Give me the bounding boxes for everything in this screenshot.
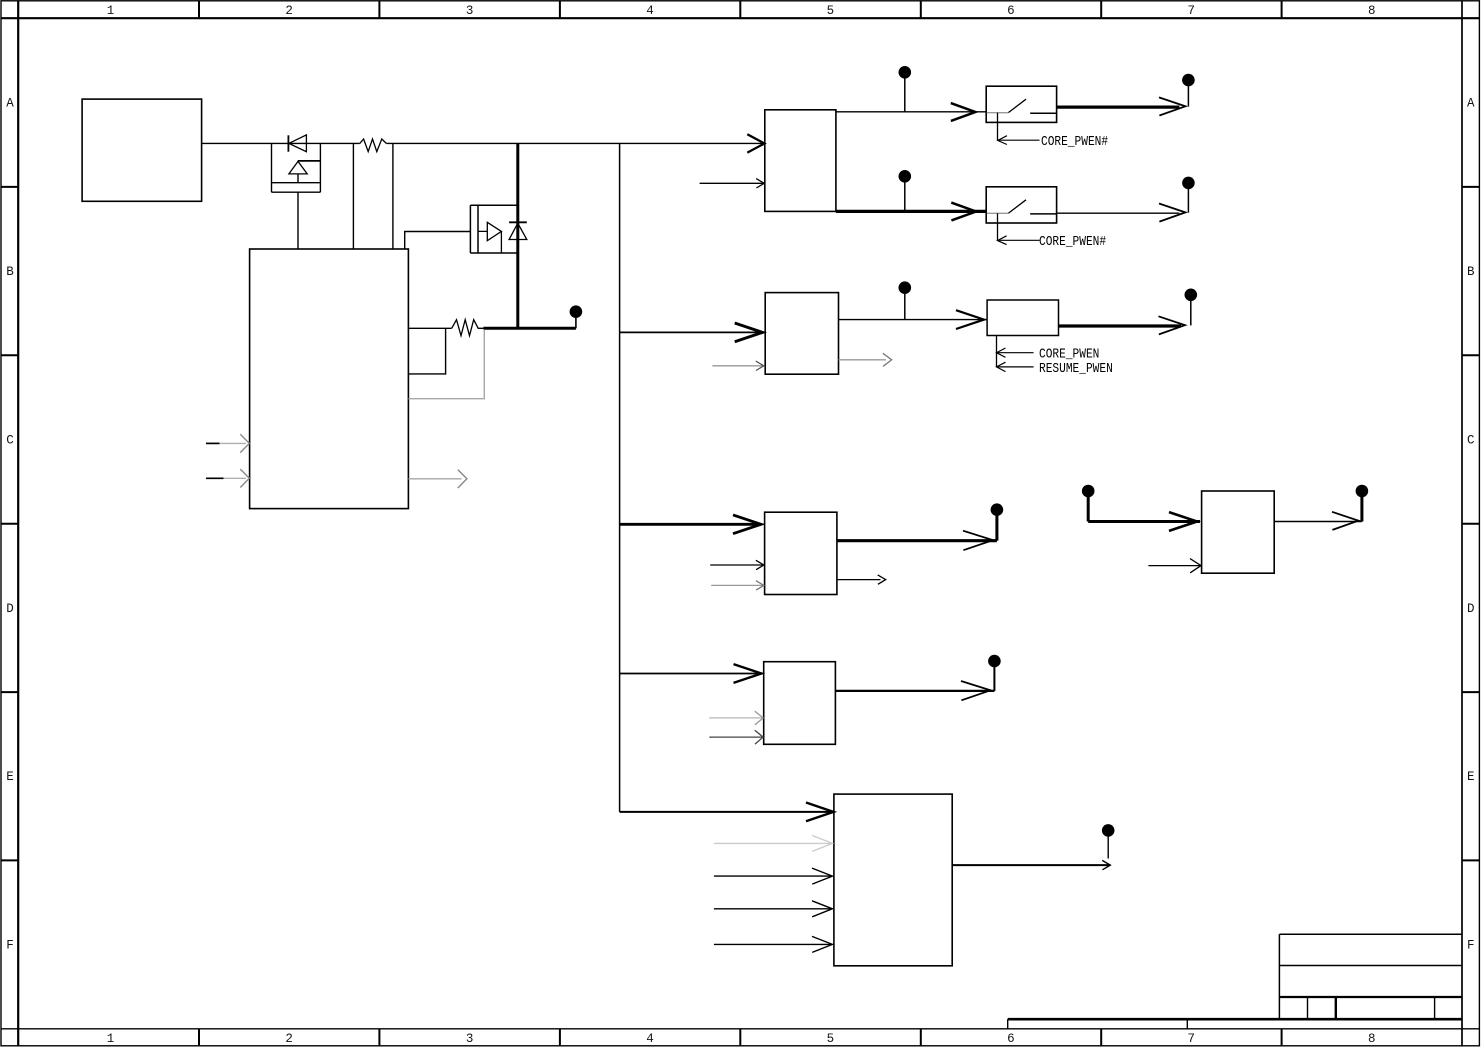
svg-text:E: E — [1467, 770, 1475, 784]
node tap A2 right — [1182, 177, 1195, 213]
svg-text:CORE_PWEN#: CORE_PWEN# — [1041, 133, 1108, 150]
svg-text:8: 8 — [1368, 4, 1376, 18]
svg-text:3: 3 — [466, 1032, 474, 1046]
wire U6 input from bus (thick) — [620, 515, 761, 534]
block U6 sequencer D — [765, 512, 837, 594]
wire SW2 control label — [998, 236, 1040, 245]
wire U9 output — [953, 860, 1111, 869]
wire U3 input arrow — [747, 134, 764, 152]
wire main rail right — [386, 142, 765, 144]
resistor R2 — [452, 320, 484, 336]
wire U4 out2 gray — [839, 353, 892, 366]
block U8 sequencer E — [764, 662, 836, 745]
svg-text:CORE_PWEN#: CORE_PWEN# — [1039, 233, 1106, 250]
wire U2 input 2 — [206, 469, 249, 487]
wire U6 input 2 — [710, 560, 764, 569]
label CORE_PWEN — [1039, 346, 1099, 363]
block U2 controller — [250, 249, 409, 509]
wire Q1 drain (thick) — [516, 143, 519, 328]
svg-text:C: C — [6, 433, 14, 447]
wire R2 left lead — [408, 327, 451, 329]
wire D1 anode to U2 — [297, 192, 299, 249]
wire U8 output — [835, 681, 994, 700]
diode D2 body diode — [509, 222, 527, 239]
wire U9 input 5 — [714, 936, 833, 952]
switch SW1 — [986, 86, 1056, 140]
node tap D — [991, 503, 1004, 540]
node tap E — [988, 655, 1001, 691]
wire U6 output (thick) — [837, 531, 997, 551]
title block — [1008, 934, 1462, 1028]
svg-text:3: 3 — [466, 4, 474, 18]
resistor R1 — [360, 139, 387, 152]
svg-text:4: 4 — [646, 1032, 654, 1046]
node tap B right — [1185, 289, 1198, 326]
wire CORE_PWEN label line — [997, 348, 1034, 357]
wire U8 input 3 — [709, 730, 763, 744]
block U9 sequencer F — [834, 794, 952, 966]
svg-text:6: 6 — [1007, 4, 1015, 18]
label CORE_PWEN# (SW2) — [1039, 233, 1106, 250]
wire U7 input 2 — [1148, 559, 1201, 573]
svg-text:1: 1 — [107, 1032, 115, 1046]
svg-text:B: B — [1467, 265, 1475, 279]
node tap A2 left — [899, 170, 912, 211]
wire U8 input 2 gray — [709, 711, 763, 725]
node tap D2 left — [1082, 485, 1095, 522]
node VOUT Q1 — [570, 305, 583, 328]
block U5 regulator — [987, 300, 1058, 336]
svg-text:5: 5 — [827, 4, 835, 18]
wire U7 output — [1274, 512, 1362, 530]
transistor Q1 package — [470, 205, 517, 253]
svg-text:RESUME_PWEN: RESUME_PWEN — [1039, 360, 1113, 377]
wire rail tap 2 — [392, 143, 394, 249]
wire sense loop black — [408, 328, 445, 374]
node tap A1 right — [1182, 74, 1195, 107]
wire U3 out1 to SW1 — [836, 103, 986, 121]
svg-text:D: D — [6, 602, 14, 616]
svg-text:5: 5 — [827, 1032, 835, 1046]
svg-text:F: F — [1467, 939, 1475, 953]
wire power bus vertical — [619, 143, 621, 812]
switch SW2 — [986, 187, 1056, 241]
svg-text:2: 2 — [285, 1032, 293, 1046]
svg-text:4: 4 — [646, 4, 654, 18]
wire U4 input 2 — [712, 361, 763, 370]
svg-text:6: 6 — [1007, 1032, 1015, 1046]
svg-text:2: 2 — [285, 4, 293, 18]
label RESUME_PWEN — [1039, 360, 1113, 377]
wire gate jog — [405, 232, 471, 250]
wire U9 input from bus — [620, 803, 834, 822]
wire U8 input from bus — [620, 664, 762, 683]
svg-text:A: A — [1467, 97, 1475, 111]
diode D1B (vertical, cathode up) — [289, 161, 321, 183]
svg-text:C: C — [1467, 433, 1475, 447]
node tap D2 right — [1356, 485, 1369, 522]
wire U5 control stem — [996, 336, 998, 367]
diode D1 package — [272, 143, 321, 192]
svg-text:B: B — [6, 265, 14, 279]
wire SW1 control label — [998, 136, 1040, 145]
wire U2 output right — [408, 470, 467, 488]
wire U9 input 2 light gray — [714, 835, 833, 851]
svg-text:E: E — [6, 770, 14, 784]
wire U3 input 2 — [700, 179, 765, 188]
wire SW1 output (thick) — [1057, 97, 1186, 115]
svg-text:A: A — [6, 97, 14, 111]
wire SW2 output — [1057, 204, 1186, 222]
wire U9 input 3 — [714, 868, 833, 884]
wire U2 input 1 — [206, 434, 249, 452]
wire sense loop gray — [408, 330, 484, 399]
diode D1A (series, cathode left) — [288, 135, 306, 152]
wire U3 out2 to SW2 (thick) — [836, 203, 986, 221]
svg-text:7: 7 — [1188, 1032, 1196, 1046]
wire U7 input (thick) — [1088, 512, 1200, 531]
wire U5 output (thick) — [1059, 316, 1185, 334]
block U3 sequencer A — [765, 110, 836, 212]
wire Q1 source rail (thick) — [483, 327, 576, 330]
wire RESUME_PWEN label line — [997, 362, 1034, 371]
svg-text:F: F — [6, 939, 14, 953]
wire rail tap 1 — [352, 143, 354, 249]
wire U6 input 3 gray — [711, 581, 764, 590]
node tap B left — [899, 281, 912, 319]
node tap F — [1102, 824, 1115, 858]
svg-text:1: 1 — [107, 4, 115, 18]
block U7 sequencer D right — [1202, 491, 1275, 573]
svg-text:D: D — [1467, 602, 1475, 616]
wire U6 output 2 — [837, 575, 886, 584]
block U1 power source — [82, 99, 202, 201]
wire main rail left — [202, 142, 360, 144]
wire U4 input from bus — [620, 323, 763, 342]
wire U9 input 4 — [714, 901, 833, 917]
block U4 sequencer B — [765, 293, 838, 375]
wire U4 out1 to U5 — [839, 310, 988, 329]
svg-text:8: 8 — [1368, 1032, 1376, 1046]
node tap A1 left — [899, 66, 912, 112]
svg-text:7: 7 — [1188, 4, 1196, 18]
label CORE_PWEN# (SW1) — [1041, 133, 1108, 150]
